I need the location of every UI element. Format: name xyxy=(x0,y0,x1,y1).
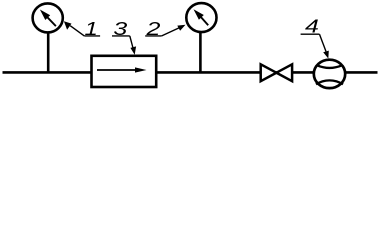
gas meter (item 4) body xyxy=(314,60,345,88)
gas meter bottom arc xyxy=(316,80,343,84)
pressure gauge 2 stem xyxy=(199,31,202,72)
pressure gauge 2 needle xyxy=(194,9,209,25)
pressure gauge 1 needle xyxy=(40,10,56,27)
label 1 arrowhead xyxy=(64,21,72,30)
pressure gauge 2 body xyxy=(186,3,216,32)
flow conditioner box (item 3) xyxy=(92,56,157,87)
label 3 shelf xyxy=(112,35,130,37)
label 2 leader xyxy=(162,28,179,36)
label 4 leader xyxy=(320,34,327,51)
gas meter top arc xyxy=(317,65,342,68)
label 1 shelf xyxy=(84,35,100,37)
label 1 leader xyxy=(70,26,84,36)
label 4 arrowhead xyxy=(323,51,329,59)
label 3 arrowhead xyxy=(130,46,136,54)
label 2 shelf xyxy=(145,35,162,37)
pressure gauge 1 stem xyxy=(47,31,50,72)
wire: main pipe xyxy=(3,71,378,74)
label 4 shelf xyxy=(301,33,320,35)
label 3 leader xyxy=(130,36,133,48)
pressure gauge 1 body xyxy=(33,3,63,32)
label 2 arrowhead xyxy=(177,25,185,31)
flow direction arrow inside box xyxy=(97,67,147,72)
svg-text:4: 4 xyxy=(305,16,319,37)
valve (bowtie) xyxy=(261,64,292,81)
